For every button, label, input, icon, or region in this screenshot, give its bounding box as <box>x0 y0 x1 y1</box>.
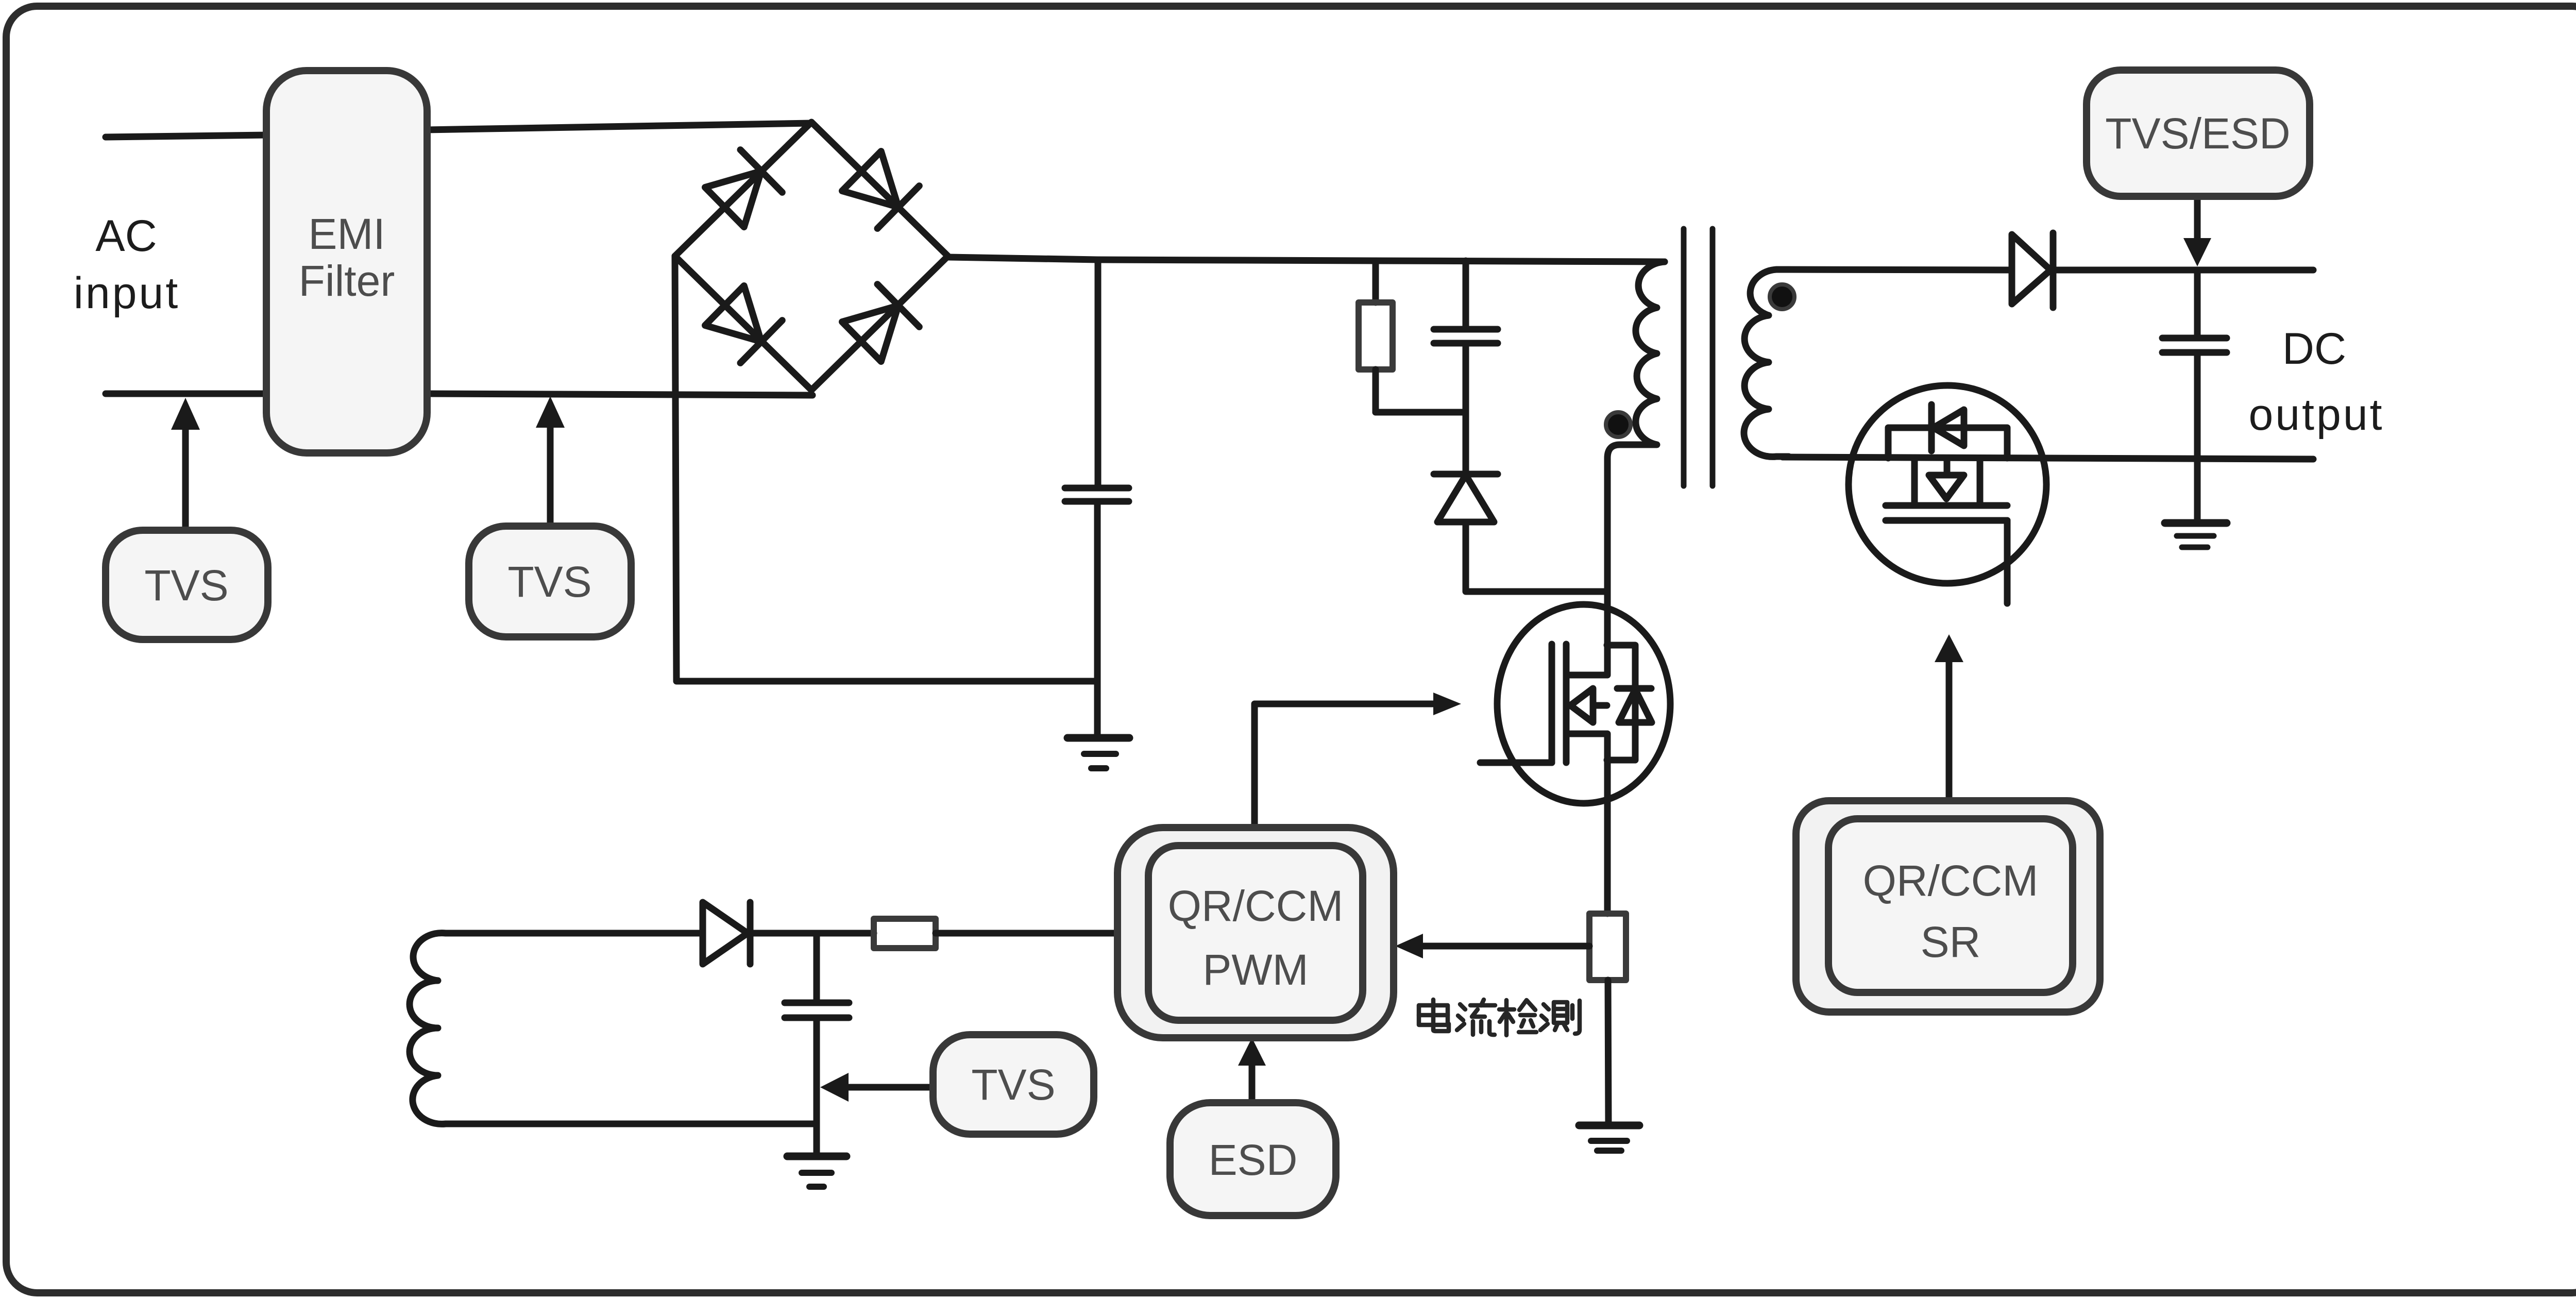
bridge rectifier diamond <box>675 122 948 390</box>
snubber capacitor C2 lead bottom <box>1463 343 1469 412</box>
MOSFET Q1 primary switch <box>1480 604 1670 803</box>
MOSFET Q2 synchronous rectifier <box>1849 385 2046 603</box>
wire output cap to ground <box>2194 352 2201 523</box>
ESD box <box>1170 1103 1336 1216</box>
QR/CCM SR controller box <box>1796 801 2100 1012</box>
wire output cap top lead <box>2194 270 2201 338</box>
wire AC line L (left) <box>106 135 267 137</box>
svg-text:DC: DC <box>2282 324 2346 374</box>
EMI filter box <box>266 71 427 453</box>
wire bus to bulk capacitor <box>1095 260 1101 488</box>
wire bulk cap to ground <box>1094 501 1101 738</box>
svg-text:ESD: ESD <box>1209 1136 1298 1184</box>
svg-text:Filter: Filter <box>299 257 395 305</box>
TVS arrow 1 <box>182 428 189 530</box>
aux capacitor C3 <box>785 1000 849 1006</box>
output diode D6 <box>2012 234 2050 304</box>
bridge diode D4 bottom-right <box>841 284 920 363</box>
svg-text:QR/CCM: QR/CCM <box>1168 882 1344 930</box>
TVS arrow (aux) <box>849 1084 933 1091</box>
svg-text:QR/CCM: QR/CCM <box>1863 856 2039 905</box>
snubber resistor R1 lead top <box>1372 261 1379 302</box>
svg-text:TVS/ESD: TVS/ESD <box>2105 109 2290 158</box>
transformer T1 secondary winding <box>1744 269 1789 457</box>
svg-text:output: output <box>2248 390 2384 440</box>
aux resistor R2 <box>874 919 936 948</box>
secondary polarity dot <box>1770 284 1794 309</box>
gate drive wire from PWM <box>1255 704 1435 828</box>
svg-text:AC: AC <box>95 211 157 261</box>
wire snubber diode to drain <box>1466 522 1607 592</box>
TVS box 1 <box>106 530 268 639</box>
transformer T1 primary winding <box>1607 262 1665 675</box>
wire aux winding bottom <box>471 1121 817 1127</box>
TVS/ESD box <box>2087 70 2310 196</box>
wire snubber RC link <box>1376 409 1466 416</box>
svg-text:TVS: TVS <box>144 561 228 610</box>
wire aux resistor to PWM <box>936 930 1117 937</box>
TVS/ESD arrow <box>2194 196 2201 239</box>
bridge diode D2 top-right <box>841 150 920 229</box>
label 电流检测 (current sense) hand-drawn glyphs <box>1419 1000 1580 1035</box>
current sense resistor R3 <box>1589 914 1626 980</box>
ground (aux) <box>787 1153 846 1160</box>
TVS box (aux) <box>933 1035 1094 1134</box>
wire aux diode to resistor <box>750 930 874 937</box>
TVS box 2 <box>469 526 631 637</box>
wire L from EMI to bridge top <box>426 123 811 130</box>
bridge diode D1 top-left <box>704 150 783 229</box>
ground (sense) <box>1579 1122 1639 1130</box>
wire Q1 source to sense resistor <box>1604 734 1611 914</box>
transformer core <box>1684 229 1713 486</box>
snubber diode D5 <box>1434 471 1498 478</box>
svg-text:input: input <box>74 268 180 318</box>
snubber capacitor C2 <box>1434 326 1498 333</box>
svg-text:SR: SR <box>1921 918 1981 966</box>
svg-text:EMI: EMI <box>308 210 385 258</box>
wire current sense to PWM <box>1422 943 1589 950</box>
aux winding <box>410 933 474 1124</box>
snubber capacitor C2 lead top <box>1463 261 1469 329</box>
snubber resistor R1 <box>1359 302 1393 369</box>
ground (bulk) <box>1067 734 1129 742</box>
wire AC line N (left) <box>106 391 267 397</box>
QR/CCM PWM controller box <box>1117 828 1394 1038</box>
wire N from EMI to bridge bottom <box>426 394 812 395</box>
wire secondary top to output diode <box>1786 269 2012 270</box>
svg-text:PWM: PWM <box>1202 946 1308 994</box>
svg-text:TVS: TVS <box>507 558 591 606</box>
wire aux winding top to diode <box>471 930 703 937</box>
SR gate drive arrow <box>1946 659 1953 801</box>
wire aux cap down to ground <box>814 1018 820 1156</box>
TVS arrow 2 <box>547 426 554 526</box>
wire sense resistor to ground <box>1608 980 1608 1125</box>
wire bridge negative down and across <box>675 256 1097 681</box>
wire secondary bottom return rail <box>1783 457 2313 459</box>
svg-text:TVS: TVS <box>971 1060 1055 1109</box>
capacitor C1 bulk <box>1065 485 1129 492</box>
output capacitor C4 <box>2162 335 2227 342</box>
wire DC+ bus from bridge to transformer <box>948 257 1665 262</box>
wire RC link down to snubber diode <box>1463 412 1469 475</box>
ESD arrow <box>1249 1066 1256 1103</box>
bridge diode D3 bottom-left <box>704 284 783 363</box>
wire aux node down to capacitor <box>814 933 820 1003</box>
snubber resistor R1 lead bottom <box>1372 369 1379 412</box>
ground (output) <box>2165 519 2227 527</box>
aux diode D7 <box>703 902 748 964</box>
wire output positive rail <box>2053 267 2313 274</box>
primary polarity dot <box>1606 412 1631 437</box>
